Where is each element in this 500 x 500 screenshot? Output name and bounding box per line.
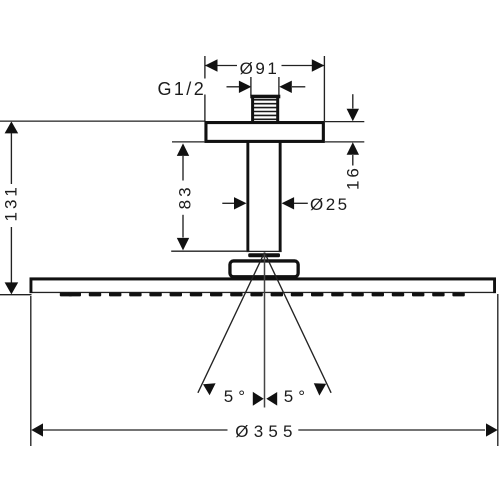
dim Ø355 extension line left — [30, 296, 32, 446]
svg-text:Ø25: Ø25 — [310, 195, 350, 214]
nipple thread hatch — [254, 100, 277, 120]
ceiling line left — [0, 120, 205, 122]
dim Ø91 dimension line — [205, 65, 237, 67]
dim Ø91 arrow right — [312, 59, 325, 71]
dim 16 upper line + arrow — [352, 94, 354, 108]
dim 83 line + arrows — [177, 143, 189, 156]
nipple edge extension line left — [250, 77, 252, 96]
dim 131 line + arrows — [5, 121, 19, 133]
svg-text:83: 83 — [176, 184, 195, 209]
spray cone line left — [198, 253, 265, 393]
dim Ø91 arrow left — [205, 59, 218, 71]
angle arrow right — [314, 383, 326, 395]
dim Ø355 dimension line — [43, 429, 228, 431]
dim Ø91 extension line right — [323, 56, 325, 121]
nipple right side — [276, 95, 279, 122]
dim Ø355 arrow right — [486, 423, 498, 436]
angle arrow left — [203, 383, 216, 395]
svg-text:Ø91: Ø91 — [240, 59, 280, 78]
dim Ø91 extension line left (with gap at G1/2 text) — [204, 56, 206, 79]
spray cone line center — [264, 253, 266, 408]
svg-text:G1/2: G1/2 — [158, 79, 207, 99]
svg-text:5°: 5° — [224, 387, 250, 406]
dim 16 lower arrow + line — [347, 142, 359, 155]
plate top edge — [30, 277, 497, 280]
dim 16 extension line bottom — [325, 141, 364, 143]
dim 16 extension line top — [325, 121, 364, 123]
connection pipe left wall — [246, 143, 249, 253]
pipe bottom line — [246, 250, 281, 252]
plate bottom line — [30, 292, 497, 293]
G1/2 leader arrow left — [227, 86, 240, 88]
plate right cap — [493, 278, 496, 294]
dim Ø25 arrow right — [282, 197, 295, 209]
svg-text:5°: 5° — [284, 387, 310, 406]
threaded nipple G1/2: top bar — [250, 95, 280, 99]
G1/2 leader arrow right — [292, 86, 305, 88]
dim Ø355 arrow left — [31, 423, 43, 436]
angle bowtie arrows at centerline — [253, 392, 264, 406]
svg-text:131: 131 — [2, 184, 21, 221]
plate left cap — [30, 278, 33, 294]
flange at head — [230, 261, 298, 277]
pipe bottom black band — [248, 253, 280, 257]
dim 131 bottom reference line — [0, 294, 32, 296]
connection pipe right wall — [279, 143, 282, 253]
shower head plate body — [30, 278, 497, 294]
svg-text:16: 16 — [343, 165, 362, 190]
svg-text:Ø355: Ø355 — [235, 422, 297, 441]
dim Ø355 extension line right — [497, 294, 499, 446]
ceiling plate (escutcheon) — [206, 123, 323, 142]
dim Ø25 arrow left — [222, 202, 234, 204]
nipple left side — [251, 95, 254, 122]
nipple edge extension line right — [278, 77, 280, 96]
spray nozzle dashes — [60, 293, 465, 297]
dim 83 extension line bottom — [171, 250, 246, 252]
spray cone line right — [265, 253, 332, 393]
dim 83 extension line top — [172, 141, 204, 143]
